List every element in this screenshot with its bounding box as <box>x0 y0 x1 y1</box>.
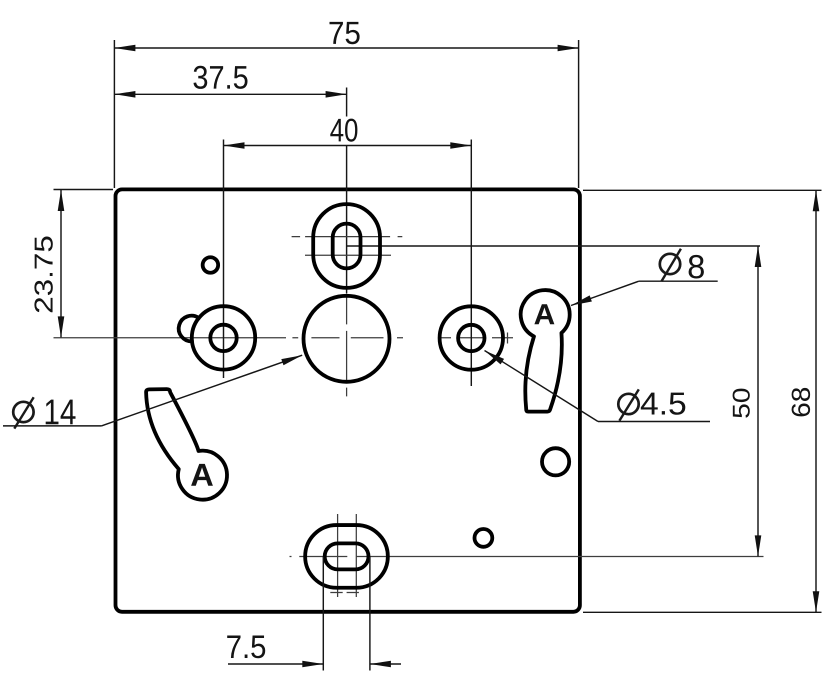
arrowhead 23.75 bottom <box>58 316 65 337</box>
diameter symbol d4.5 <box>618 394 638 414</box>
dimension line 75 <box>114 47 578 49</box>
extension line left edge <box>113 40 115 188</box>
label 14 <box>46 400 76 425</box>
arrowhead 23.75 top <box>58 190 65 211</box>
arrowhead 75 right <box>558 45 579 52</box>
diameter symbol d8 <box>660 254 680 274</box>
extension line top-left corner <box>54 189 114 191</box>
arrowhead 40 left <box>224 142 245 149</box>
extension line slot axis lower <box>346 145 348 293</box>
leader line d14 <box>101 355 302 426</box>
top slot inner <box>333 224 361 269</box>
leader line d4.5 <box>485 351 599 422</box>
label 37.5 <box>194 66 248 89</box>
bottom slot horizontal centerline + 50 ext <box>290 556 764 558</box>
small circle right <box>542 448 569 475</box>
arrowhead leader d4.5 <box>483 348 504 365</box>
diameter symbol d14 <box>13 402 33 422</box>
dimension line 37.5 <box>114 93 346 95</box>
top slot arc centerlines <box>292 236 403 238</box>
leader shoulder d14 <box>3 425 101 427</box>
arrowhead 7.5 right <box>370 661 391 668</box>
leader line d8 <box>571 281 639 305</box>
dimension line 50 <box>757 246 759 556</box>
label A left <box>191 464 213 486</box>
left ring outer <box>192 306 255 369</box>
50 dim top extension y=246 <box>347 245 760 247</box>
right ring outer <box>440 306 503 369</box>
right ring inner <box>458 325 484 351</box>
label 50 <box>733 389 750 418</box>
bottom slot arc centerlines <box>337 514 339 597</box>
bottom slot inner <box>325 543 369 569</box>
arrowhead 68 top <box>813 190 820 211</box>
label 7.5 <box>227 635 265 658</box>
arrowhead 50 top <box>755 246 762 267</box>
label A right <box>534 304 554 324</box>
plate outline <box>116 189 580 611</box>
arrowhead leader d14 <box>281 352 303 365</box>
arrowhead 40 right <box>450 142 471 149</box>
arrowhead 75 left <box>114 45 135 52</box>
leader shoulder d4.5 <box>598 421 710 423</box>
extension line right edge <box>578 40 580 188</box>
keyhole slot A left <box>146 389 227 500</box>
arrowhead 68 bottom <box>813 591 820 612</box>
crescent small circle on left ring <box>179 316 199 342</box>
label 75 <box>330 22 360 44</box>
label 8 <box>689 255 704 279</box>
small circle bottom-right <box>475 529 493 547</box>
small circle top-left <box>203 257 219 273</box>
extension line top-right corner <box>583 189 822 191</box>
arrowhead 7.5 left <box>302 661 323 668</box>
left ring inner <box>210 325 236 351</box>
extension line slot axis upper <box>346 88 348 117</box>
label 4.5 <box>641 393 685 415</box>
keyhole slot A right <box>521 290 570 412</box>
dimension line 40 <box>224 145 472 147</box>
label 23.75 <box>34 237 52 313</box>
leader shoulder d8 <box>639 280 718 282</box>
centerline vertical left ring x=223.5 (40 ext) <box>223 140 225 379</box>
arrowhead 37.5 left <box>114 91 135 98</box>
dimension line 7.5 right part <box>370 663 401 665</box>
arrowhead leader d8 <box>570 295 592 308</box>
extension line slot left <box>322 557 324 671</box>
centerline vertical right ring x=471.3 (40 ext) <box>470 140 472 387</box>
centerline horizontal through holes <box>54 337 514 339</box>
extension line slot right <box>369 557 371 671</box>
dimension line 7.5 left part <box>228 663 323 665</box>
extension line bottom-right corner <box>583 611 822 613</box>
dimension line 68 <box>815 190 817 612</box>
arrowhead 50 bottom <box>755 535 762 556</box>
arrowhead 37.5 right <box>326 91 347 98</box>
label 40 <box>330 119 357 142</box>
centerline end tick <box>507 333 509 344</box>
label 68 <box>792 388 811 416</box>
top slot outer <box>313 204 380 288</box>
dimension line 23.75 <box>60 190 62 337</box>
bottom slot outer <box>305 525 388 588</box>
big circle d14 <box>304 296 390 382</box>
